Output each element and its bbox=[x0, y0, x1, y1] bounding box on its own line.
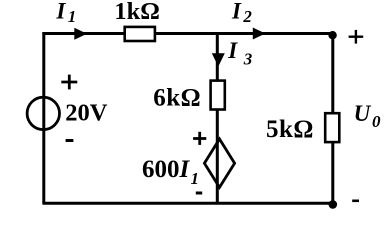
svg-text:1kΩ: 1kΩ bbox=[114, 0, 159, 25]
svg-text:5kΩ: 5kΩ bbox=[266, 116, 314, 143]
svg-text:1: 1 bbox=[68, 7, 77, 26]
svg-text:1: 1 bbox=[191, 169, 200, 188]
resistor R1 1kΩ (body) bbox=[125, 27, 155, 41]
polarity - of source 20V bbox=[66, 139, 74, 142]
polarity + of dependent source bbox=[193, 132, 206, 145]
wire middle branch bbox=[216, 34, 219, 204]
arrow current I3 bbox=[212, 53, 225, 66]
node junction bottom-right bbox=[329, 200, 338, 209]
svg-text:I: I bbox=[55, 0, 66, 24]
dependent source 600I1 (diamond) bbox=[204, 139, 234, 187]
arrow current I1 bbox=[74, 28, 87, 40]
svg-text:6kΩ: 6kΩ bbox=[153, 85, 201, 112]
arrow current I2 bbox=[253, 28, 266, 40]
polarity - of U0 bbox=[352, 200, 359, 203]
svg-text:2: 2 bbox=[242, 7, 252, 26]
wire left bbox=[42, 32, 45, 203]
wire right branch bbox=[331, 34, 334, 204]
svg-text:U: U bbox=[354, 101, 372, 126]
svg-text:0: 0 bbox=[372, 112, 381, 131]
svg-text:600I: 600I bbox=[142, 156, 191, 183]
node junction top-right bbox=[328, 31, 336, 39]
wire bottom bbox=[42, 202, 332, 205]
polarity + of U0 bbox=[349, 30, 364, 44]
svg-text:20V: 20V bbox=[65, 100, 108, 127]
resistor R2 6kΩ (body) bbox=[211, 81, 225, 110]
polarity - of dependent source bbox=[196, 192, 202, 195]
svg-text:I: I bbox=[227, 38, 238, 63]
resistor R3 5kΩ (body) bbox=[325, 113, 339, 142]
svg-text:3: 3 bbox=[243, 50, 253, 69]
wire top bbox=[42, 32, 332, 35]
polarity + of source 20V bbox=[61, 75, 77, 90]
svg-text:I: I bbox=[231, 0, 242, 23]
voltage source V 20V (circle) bbox=[27, 97, 59, 129]
